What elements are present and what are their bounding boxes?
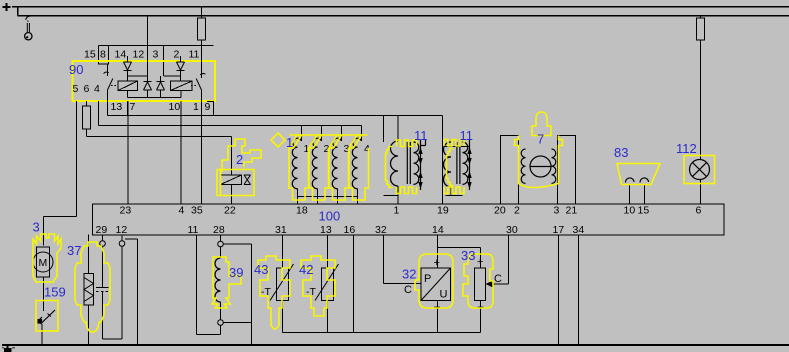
wire ECU pin 20 post [501,136,519,205]
svg-text:31: 31 [275,224,287,236]
wire fuse F3 down [86,129,88,137]
coolant sensor 43 [270,235,294,333]
lambda heater 37 group [84,235,138,345]
svg-text:90: 90 [69,62,83,77]
svg-text:23: 23 [120,205,132,217]
component 7 yellow outline [515,112,563,188]
svg-text:34: 34 [573,224,585,236]
svg-text:12: 12 [116,224,128,236]
wire ECU pin 30 to wiper [493,235,509,285]
wire D2 to coil K2 [164,71,181,82]
wire D1 to coil K1 [128,71,148,82]
svg-text:C: C [404,284,412,296]
flux line 11b [469,140,471,190]
svg-text:42: 42 [299,262,313,277]
coil 4 winding [352,138,361,189]
relay pin header line [99,45,214,47]
wire bus A top [12,6,789,8]
MAP sensor 32 [384,235,451,333]
component 159 yellow outline [36,301,58,332]
wire switch 159 to ground bus [41,324,43,345]
flux line 11a [421,139,426,190]
wire coil K2 to ECU pin 4 [180,101,182,204]
wire coil top 11a [397,116,399,142]
secondary coil 11b [463,142,468,184]
wire ECU pin 32 to C input [384,235,422,284]
wire coil bottom to ECU pin 1 [384,186,399,204]
wire ECU pin 34 to ground [578,235,580,345]
actuator coil left [521,149,525,183]
wire coil4 feed [361,126,363,142]
wire valve 2 to ECU pin 22 [231,185,233,205]
wire motor to switch 159 [43,277,45,311]
svg-text:8: 8 [100,49,106,61]
wire ECU pin 31 [282,235,284,269]
NTC body 43 [277,268,289,301]
wire 32 minus to bus [437,301,439,333]
component 3 yellow outline [33,234,61,282]
component 39 yellow outline [212,257,241,308]
svg-text:29: 29 [96,224,108,236]
svg-text:21: 21 [566,205,578,217]
junction 28 top [218,241,224,247]
component 1 yellow outline [271,133,369,200]
wiper arrow 33 [486,280,494,288]
svg-text:7: 7 [130,101,136,113]
svg-text:12: 12 [133,49,145,61]
svg-text:112: 112 [676,141,697,156]
wire coil2 feed [321,126,323,142]
cell divider pin 3 [163,46,165,77]
sensor 11a yellow shell [386,147,393,188]
svg-text:6: 6 [696,205,702,217]
diode D2 [177,62,185,71]
svg-text:3: 3 [153,49,159,61]
wire coil secondaries to ECU pin 18 [298,189,358,205]
contact hooks 83 [625,178,634,183]
resistor 37 [84,274,94,306]
contact S2 [201,46,203,79]
component 42 yellow outline [301,256,335,316]
diode D1 [124,62,132,71]
sensor 11a yellow teeth [397,140,417,194]
wire bus B second [18,7,789,16]
valve 2 X symbol [244,175,251,185]
NTC body 42 [322,268,334,301]
svg-text:30: 30 [506,224,518,236]
ECU 100 box [93,204,725,235]
motor M frame [37,247,50,277]
svg-text:159: 159 [44,285,66,300]
svg-text:11: 11 [189,49,200,61]
svg-text:3: 3 [554,205,560,217]
pin 9 cell wall [207,101,214,116]
diode D4 [160,76,162,81]
relay 90 yellow outline [73,61,216,101]
wire sensor ground bus [2,235,789,346]
svg-text:7: 7 [537,132,544,147]
ground symbol [2,345,15,352]
svg-text:9: 9 [205,101,211,113]
wire bus sensors [108,115,443,117]
wire ground rail [2,344,789,346]
wire ECU pin 17 to ground [558,235,560,345]
svg-text:3: 3 [33,220,40,235]
wire coil K1 to ECU pin 23 [127,101,129,204]
svg-text:13: 13 [320,224,332,236]
wire ECU pin 13 [327,235,329,269]
svg-text:4: 4 [94,83,100,95]
coil 2 winding [312,138,321,189]
svg-text:P: P [424,273,431,285]
wire ECU pin 14 [437,235,439,269]
component 32 yellow outline [415,254,453,308]
relay coil K1 [118,81,138,91]
svg-text:U: U [440,289,448,301]
fuse F2 [697,18,705,40]
svg-text:22: 22 [224,205,236,217]
relay unit 90 [99,46,214,77]
junction 29 [100,241,106,247]
svg-text:11: 11 [414,128,428,143]
svg-text:14: 14 [115,49,127,61]
idle actuator 7 [501,136,576,205]
svg-text:20: 20 [494,205,506,217]
core lines 11b [457,142,460,184]
svg-text:1: 1 [394,205,400,217]
valve 2 coil [221,175,242,185]
svg-text:−: − [434,300,441,314]
wire resistor 37 to ground rail [88,305,90,345]
wire pin 6 to fuse F3 [86,101,88,106]
sensor 11b yellow teeth [444,140,464,194]
actuator coil right [552,149,556,183]
wire coil bottoms junction [128,91,182,98]
wire ECU pin 12 [121,235,123,241]
diagnostic connector 83 [625,178,648,183]
pin 13 cell wall [127,101,129,116]
component 83 yellow outline [617,164,660,185]
wire junction bottom jog [223,322,251,324]
component 33 yellow outline [463,254,493,308]
wire bus valve 2 [87,136,232,138]
wire junction 29 to capacitor [102,246,104,287]
sensor 32 box [421,268,451,301]
svg-text:28: 28 [213,224,225,236]
core lines 11a [407,142,410,184]
wire coil bottom 11b [446,187,463,196]
warning lamp 112 [690,160,710,180]
wire fuse F2 to lamp 112 [700,40,702,160]
component 112 yellow outline [684,156,715,184]
svg-text:M: M [39,257,48,269]
svg-text:13: 13 [111,101,123,113]
svg-text:83: 83 [614,145,628,160]
svg-text:14: 14 [432,224,444,236]
wire junction jog right [223,244,251,345]
svg-text:100: 100 [319,209,341,224]
wire shield drop 11a [383,116,385,143]
motor branch [33,217,77,345]
contact S1 [107,64,109,76]
svg-text:37: 37 [67,243,81,258]
svg-text:C: C [494,273,502,285]
svg-text:4: 4 [179,205,185,217]
wire contact S2 to ECU pin 35 [201,90,203,204]
wire coil1 feed [301,126,303,142]
flux arrows 11b [467,147,471,189]
pickup coil 11a [391,141,398,186]
wire ECU pin 19 tie [442,116,444,205]
node + (battery positive) [3,3,11,11]
wire 43 to bus [282,301,284,333]
ignition coils 1 [302,126,362,142]
injector coil 39 [215,258,220,302]
svg-text:2: 2 [174,49,180,61]
wire fuse F1 to relay pin 11 [201,40,203,46]
component 43 yellow outline [258,256,290,329]
wire junction 12 jog right [125,239,138,345]
wire 83 to ECU pin 10 [629,185,631,205]
wire ECU pin 28 [220,235,222,242]
svg-text:32: 32 [402,267,416,282]
injector 39 group [197,235,252,345]
svg-text:10: 10 [169,101,181,113]
svg-text:2: 2 [236,152,243,167]
svg-text:1: 1 [286,135,293,150]
wire pot feed from pin 14 [438,248,481,269]
component 37 yellow outline [75,242,110,332]
wire ECU to resistor 37 [88,235,90,274]
flux arrows 11a [418,147,422,189]
svg-text:10: 10 [624,205,636,217]
wire bus coils [99,125,362,127]
wire ECU pin 29 [102,235,104,241]
wire 42 to bottom [327,301,329,333]
rpm sensor 11a [384,116,399,205]
air temp sensor 42 [315,235,339,333]
pickup coil 11b [444,142,452,187]
pot resistor 33 [475,268,486,301]
component 2 yellow outline [217,139,261,196]
rpm sensor 11b [444,147,470,196]
wire coil3 feed [341,126,343,142]
svg-text:32: 32 [375,224,387,236]
wire capacitor down [103,292,123,340]
wire bus B to fuse F2 [700,16,702,19]
svg-text:16: 16 [344,224,356,236]
wire 83 to ECU pin 15 [644,185,646,205]
wire to coil 39 [220,247,222,258]
svg-text:2: 2 [514,205,520,217]
svg-text:+: + [434,257,440,269]
diode D1 wire [127,56,129,62]
svg-text:5: 5 [73,83,79,95]
wire pot minus to bus [480,301,482,333]
svg-text:35: 35 [191,205,203,217]
coil 3 winding [332,138,341,189]
wire bus B to relay pin 3 [147,16,149,46]
junction 28 bottom [218,320,224,326]
svg-text:15: 15 [84,49,96,61]
diode D3 [147,16,149,82]
wire bus to valve 2 [231,137,233,175]
secondary coil 11a [414,142,419,184]
actuator motor circle [530,156,551,177]
svg-text:39: 39 [229,265,243,280]
wire junction 12 down [121,246,123,339]
wire pin5 to motor 3 [44,217,77,246]
svg-text:11: 11 [460,128,474,143]
node ignition key terminal [25,16,32,40]
throttle potentiometer 33 [438,235,509,333]
svg-text:11: 11 [188,224,199,236]
pin 8 cell box [99,46,109,65]
wire coil 39 bottom [220,302,222,335]
coil 1 winding [292,138,301,189]
relay coil K2 [171,81,193,91]
fuse F3 [83,106,91,129]
svg-text:18: 18 [296,205,308,217]
svg-text:1: 1 [193,101,199,113]
sensor 11b yellow shell [447,149,454,186]
wire pin 4 down [98,101,100,126]
svg-text:15: 15 [638,205,650,217]
wire lamp 112 to ECU pin 6 [700,180,702,205]
solenoid valve 2 [221,137,251,205]
svg-text:−: − [477,300,484,314]
diode D2 wire [180,56,182,62]
wire ECU pin 3 post [558,136,576,205]
wire bus A to fuse F1 [201,7,203,19]
svg-text:+: + [477,256,483,268]
motor M circle [33,252,53,272]
wire ECU pin 16 to bus [353,235,355,333]
switch 159 symbol [38,310,55,324]
wire ECU pin 11 [197,235,221,335]
wire sensor top tie 11b [444,146,470,148]
junction 12 [119,241,125,247]
svg-text:17: 17 [553,224,565,236]
wire pin 5 down [76,101,78,217]
svg-text:33: 33 [461,248,475,263]
capacitor C1 [96,287,109,289]
fuse F1 [198,18,206,40]
svg-text:43: 43 [254,262,268,277]
svg-text:6: 6 [84,83,90,95]
svg-text:19: 19 [437,205,449,217]
